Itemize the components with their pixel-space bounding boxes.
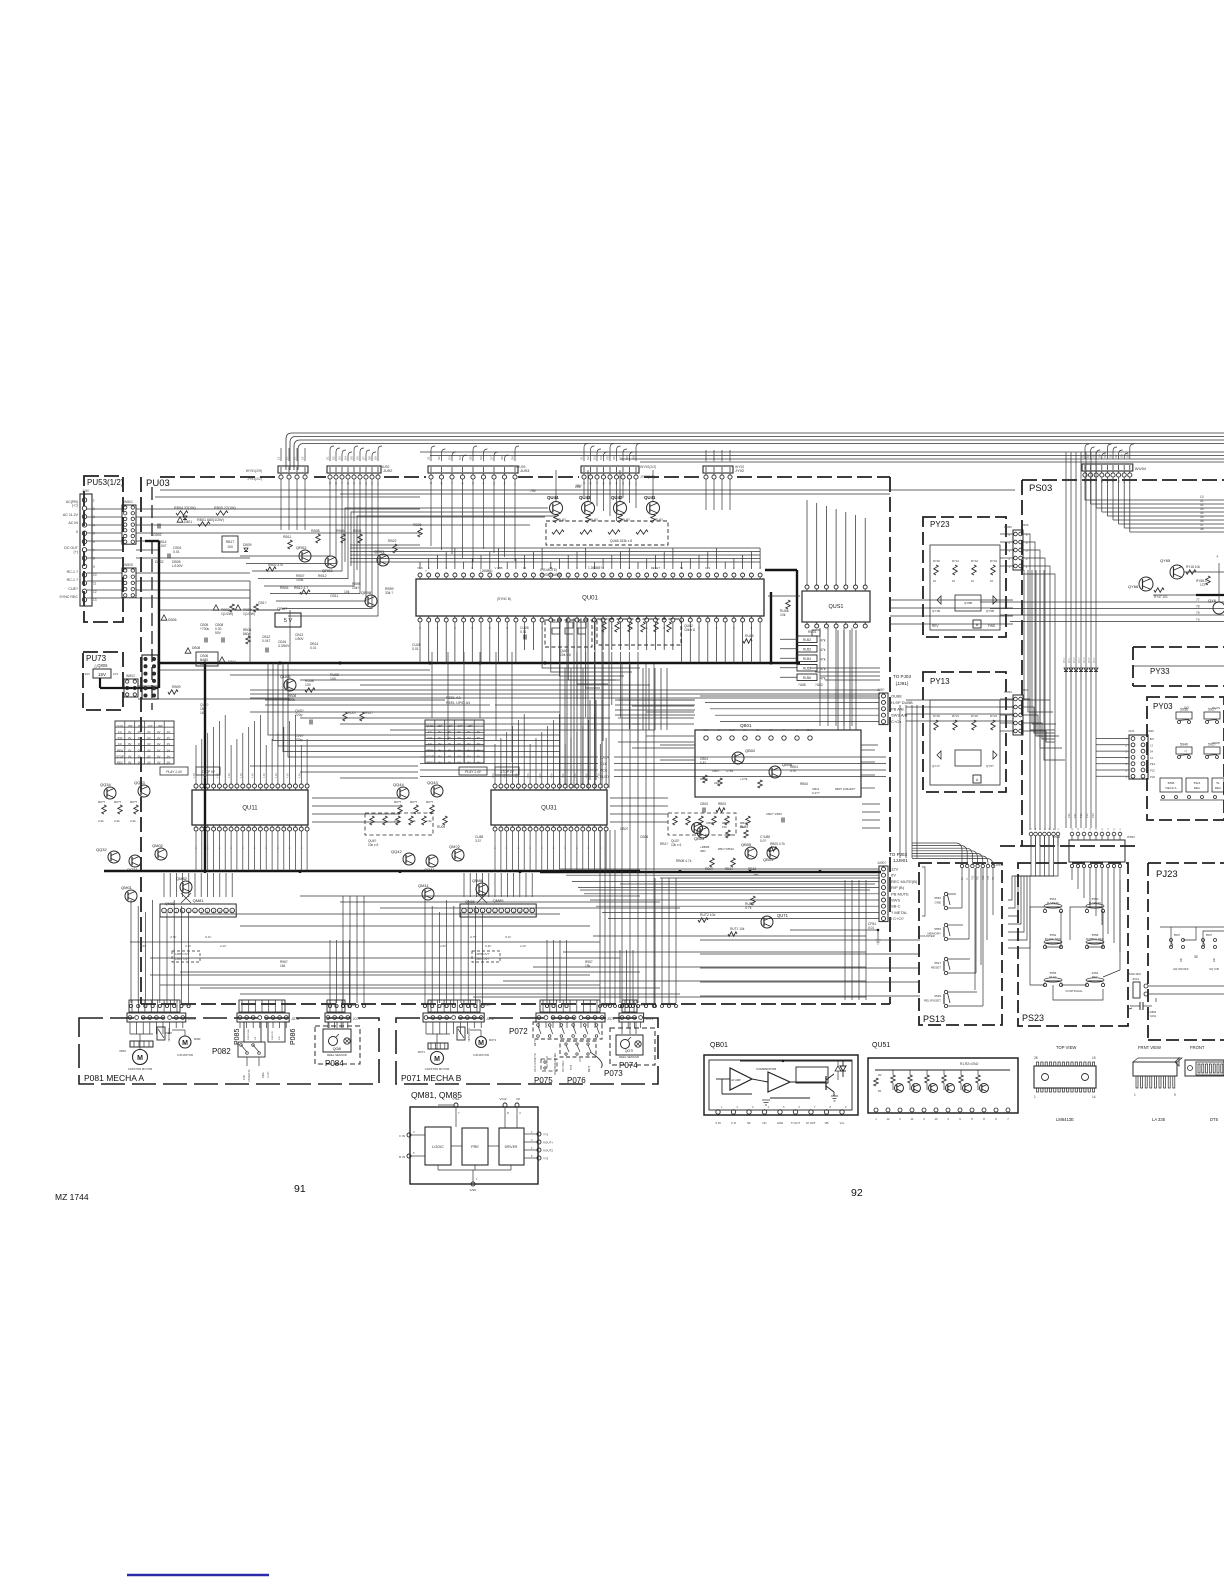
svg-text:PS13: PS13: [923, 1014, 945, 1024]
svg-text:0V: 0V: [477, 742, 481, 746]
svg-text:0V: 0V: [157, 754, 161, 758]
svg-text:W?87: W?87: [639, 1003, 647, 1007]
svg-text:PJ23: PJ23: [1156, 869, 1178, 880]
svg-text:0V: 0V: [457, 736, 461, 740]
svg-text:11: 11: [93, 582, 97, 586]
svg-text:QY5B: QY5B: [986, 609, 994, 613]
svg-text:P23: P23: [987, 875, 990, 880]
svg-text:REL/ROSET: REL/ROSET: [924, 999, 941, 1003]
svg-text:47k: 47k: [820, 658, 826, 662]
svg-text:RB06: RB06: [800, 782, 808, 786]
svg-text:0V: 0V: [128, 742, 132, 746]
svg-text:QY8B: QY8B: [964, 601, 972, 605]
svg-text:W?85: W?85: [482, 1003, 490, 1007]
svg-text:0.01: 0.01: [173, 550, 180, 554]
svg-text:QQ32: QQ32: [96, 847, 107, 852]
svg-text:0V: 0V: [243, 846, 245, 849]
svg-text:0V: 0V: [147, 761, 151, 765]
svg-text:WU93: WU93: [516, 465, 526, 469]
svg-text:DT5: DT5: [1210, 1117, 1219, 1122]
svg-text:0V: 0V: [147, 736, 151, 740]
svg-text:0V: 0V: [467, 742, 471, 746]
svg-text:MOT1: MOT1: [418, 1050, 426, 1054]
svg-text:4.8V: 4.8V: [205, 773, 208, 778]
svg-text:F IN: F IN: [399, 1134, 405, 1138]
svg-text:S9: S9: [632, 456, 636, 460]
svg-text:JO73: JO73: [646, 1017, 654, 1021]
svg-text:⇧: ⇧: [1179, 958, 1183, 964]
svg-text:0V: 0V: [255, 846, 257, 849]
svg-text:S3: S3: [593, 456, 597, 460]
svg-text:0V: 0V: [457, 742, 461, 746]
svg-text:P20: P20: [1150, 775, 1155, 779]
svg-text:16V: 16V: [200, 711, 207, 715]
svg-text:RESET: RESET: [931, 966, 941, 970]
svg-text:PY13: PY13: [930, 677, 950, 686]
svg-text:RY40: RY40: [933, 559, 940, 563]
svg-text:58: 58: [1200, 527, 1204, 531]
svg-text:ONE: ONE: [934, 901, 941, 905]
svg-text:RY23: RY23: [990, 714, 997, 718]
svg-text:550?: 550?: [1174, 933, 1181, 937]
svg-text:16: 16: [277, 456, 281, 460]
svg-text:10: 10: [934, 1117, 938, 1121]
svg-text:QU44: QU44: [547, 495, 559, 500]
svg-text:4.8V: 4.8V: [216, 773, 219, 778]
svg-text:S3: S3: [338, 456, 342, 460]
svg-text:S1: S1: [326, 456, 330, 460]
svg-text:M: M: [182, 1040, 188, 1047]
svg-text:REC: REC: [1215, 786, 1222, 790]
svg-text:R9??: R9??: [394, 800, 402, 804]
svg-text:15V: 15V: [98, 672, 106, 677]
svg-text:22k: 22k: [740, 825, 745, 829]
svg-text:17P: 17P: [148, 724, 153, 728]
svg-text:RB1?: RB1?: [660, 842, 668, 846]
svg-text:0V: 0V: [128, 748, 132, 752]
svg-text:11: 11: [911, 1117, 914, 1121]
svg-text:(?=SP DUBB): (?=SP DUBB): [540, 573, 561, 577]
svg-text:9: 9: [1174, 1093, 1176, 1097]
svg-text:S3: S3: [1092, 454, 1096, 458]
svg-text:V?E1: V?E1: [452, 1097, 460, 1101]
svg-text:HR ON/OFF: HR ON/OFF: [1173, 967, 1189, 971]
svg-text:4.7k: 4.7k: [790, 769, 796, 773]
svg-text:PAUS: PAUS: [1212, 706, 1220, 710]
svg-text:2.6V: 2.6V: [139, 944, 147, 948]
svg-text:1O78: 1O78: [580, 1056, 582, 1062]
svg-text:0.01: 0.01: [520, 630, 527, 634]
svg-text:+700u: +700u: [200, 627, 209, 631]
svg-text:REV: REV: [932, 624, 939, 628]
svg-text:S9: S9: [374, 456, 378, 460]
svg-text:MOT2: MOT2: [489, 1038, 497, 1042]
svg-text:?U88: ?U88: [798, 683, 806, 687]
svg-text:R9??: R9??: [114, 800, 122, 804]
svg-text:10k: 10k: [722, 825, 727, 829]
svg-text:2.2k: 2.2k: [114, 819, 120, 823]
svg-text:S8: S8: [368, 456, 372, 460]
svg-text:M: M: [478, 1040, 484, 1047]
svg-text:S1: S1: [427, 456, 431, 460]
svg-text:208A: 208A: [262, 1072, 265, 1078]
svg-text:8V: 8V: [743, 728, 746, 732]
svg-text:MET?: MET?: [535, 1039, 537, 1046]
svg-text:ACK: ACK: [600, 769, 608, 773]
svg-text:REC: REC: [1092, 975, 1098, 979]
svg-text:0V: 0V: [438, 730, 442, 734]
svg-text:5537: 5537: [934, 961, 941, 965]
svg-text:0.047: 0.047: [158, 544, 167, 548]
svg-text:RY42: RY42: [971, 559, 978, 563]
svg-text:W393: W393: [1004, 690, 1012, 694]
svg-text:LOGIC: LOGIC: [432, 1145, 444, 1149]
svg-text:8V: 8V: [717, 728, 720, 732]
svg-text:0V: 0V: [577, 846, 579, 849]
svg-text:3.7V: 3.7V: [470, 935, 477, 939]
svg-text:QU42: QU42: [611, 495, 623, 500]
svg-text:RB05 22(1W): RB05 22(1W): [214, 506, 236, 510]
svg-text:RU09: RU09: [437, 825, 445, 829]
svg-text:RB12 4.7: RB12 4.7: [294, 586, 308, 590]
svg-text:10k x 6: 10k x 6: [560, 653, 571, 657]
svg-text:QU11: QU11: [116, 724, 124, 728]
svg-text:PLAY 1.4V: PLAY 1.4V: [166, 770, 183, 774]
svg-text:S3: S3: [448, 456, 452, 460]
svg-text:P22: P22: [1079, 813, 1083, 818]
svg-text:0V: 0V: [208, 846, 210, 849]
svg-text:0.1V: 0.1V: [205, 935, 212, 939]
svg-text:AC 11.2V: AC 11.2V: [63, 513, 79, 517]
svg-text:0V: 0V: [147, 748, 151, 752]
svg-text:QM82: QM82: [165, 902, 175, 906]
svg-text:860p: 860p: [243, 632, 251, 636]
svg-text:15: 15: [1092, 1056, 1096, 1060]
svg-text:R9??: R9??: [130, 800, 138, 804]
svg-text:? METAL: ? METAL: [891, 910, 908, 915]
svg-text:W936: W936: [1146, 729, 1154, 733]
svg-text:S5: S5: [469, 456, 473, 460]
svg-text:PEW: PEW: [117, 748, 124, 752]
svg-text:P076: P076: [567, 1076, 586, 1085]
svg-text:78: 78: [1196, 605, 1200, 609]
svg-text:GO: GO: [1184, 706, 1189, 710]
svg-text:47k: 47k: [820, 677, 826, 681]
svg-text:0.01: 0.01: [412, 647, 419, 651]
svg-text:SOLENOID: SOLENOID: [167, 1028, 171, 1042]
svg-text:CONTINUAL: CONTINUAL: [1065, 989, 1083, 993]
svg-text:QU31: QU31: [541, 806, 557, 812]
svg-text:(SYNC B): (SYNC B): [497, 597, 511, 601]
svg-text:S8: S8: [500, 456, 504, 460]
svg-text:RB06: RB06: [336, 529, 345, 533]
svg-text:550?: 550?: [1206, 933, 1213, 937]
svg-text:AF AMP: AF AMP: [731, 1078, 741, 1082]
svg-text:172: 172: [1200, 583, 1206, 587]
svg-text:R9??: R9??: [98, 800, 106, 804]
svg-text:0V: 0V: [467, 754, 471, 758]
svg-text:REC MUTE(B): REC MUTE(B): [891, 879, 918, 884]
svg-text:100: 100: [305, 683, 311, 687]
svg-text:Y?2: Y?2: [543, 1157, 549, 1161]
svg-text:0V: 0V: [589, 846, 591, 849]
svg-text:R1: R1: [878, 1089, 882, 1093]
svg-text:QU66 183k x 8: QU66 183k x 8: [610, 539, 632, 543]
svg-text:SYNC REC: SYNC REC: [59, 595, 78, 599]
svg-text:PU53(1/2): PU53(1/2): [87, 478, 124, 487]
svg-text:0V: 0V: [157, 730, 161, 734]
svg-text:2.2k: 2.2k: [426, 819, 432, 823]
svg-text:+: +: [1216, 554, 1219, 559]
svg-text:Vcc: Vcc: [840, 1121, 845, 1125]
svg-text:47k: 47k: [820, 648, 826, 652]
svg-text:QB05: QB05: [741, 842, 752, 847]
svg-text:2.2k: 2.2k: [98, 819, 104, 823]
svg-text:3.3/50V: 3.3/50V: [278, 644, 290, 648]
svg-text:0: 0: [76, 530, 78, 534]
svg-text:R/P (B): R/P (B): [891, 885, 905, 890]
svg-text:0V: 0V: [157, 748, 161, 752]
svg-text:15V: 15V: [575, 485, 582, 489]
svg-text:CB06: CB06: [640, 835, 648, 839]
svg-text:QM81: QM81: [193, 898, 205, 903]
svg-text:QM11: QM11: [418, 883, 429, 888]
svg-text:0V: 0V: [467, 730, 471, 734]
svg-text:GND: GND: [470, 1188, 478, 1192]
svg-text:S7: S7: [619, 456, 623, 460]
svg-text:D512: D512: [1074, 657, 1076, 663]
svg-text:4.8V: 4.8V: [298, 773, 301, 778]
svg-text:FRNT VIEW: FRNT VIEW: [1138, 1045, 1161, 1050]
svg-text:STOP: STOP: [1212, 741, 1220, 745]
svg-text:REC: REC: [427, 761, 433, 765]
svg-text:13: 13: [1150, 743, 1154, 747]
svg-text:+C?9: +C?9: [740, 777, 748, 781]
svg-text:2.2V: 2.2V: [219, 944, 227, 948]
svg-text:D513: D513: [1079, 657, 1081, 663]
svg-text:?U83: ?U83: [815, 683, 823, 687]
svg-text:☒: ☒: [1194, 954, 1198, 959]
svg-text:QU51: QU51: [872, 1042, 890, 1049]
svg-text:W593: W593: [1127, 835, 1135, 839]
svg-text:RY18 10k: RY18 10k: [1186, 565, 1200, 569]
svg-text:△Q806: △Q806: [94, 663, 108, 668]
svg-text:0V: 0V: [138, 754, 142, 758]
svg-text:10k?: 10k?: [352, 586, 359, 590]
svg-text:S6: S6: [1109, 454, 1113, 458]
svg-text:4.8V: 4.8V: [539, 773, 542, 778]
svg-text:S6: S6: [612, 456, 616, 460]
svg-text:NF: NF: [747, 1121, 751, 1125]
svg-text:PLAY 1.4V: PLAY 1.4V: [465, 770, 482, 774]
svg-text:CB0?: CB0?: [712, 769, 720, 773]
svg-text:51: 51: [1216, 781, 1220, 785]
svg-text:P22: P22: [1150, 769, 1155, 773]
svg-text:QQ33: QQ33: [134, 780, 145, 785]
svg-text:5A: 5A: [961, 877, 964, 880]
svg-text:RC-1 ?: RC-1 ?: [67, 570, 78, 574]
svg-text:4: 4: [93, 523, 95, 527]
svg-text:33k ?: 33k ?: [385, 591, 393, 595]
svg-text:0V: 0V: [138, 748, 142, 752]
svg-text:0V: 0V: [438, 736, 442, 740]
svg-text:J396: J396: [1022, 523, 1029, 527]
svg-text:F.F: F.F: [428, 730, 432, 734]
svg-text:JU5?: JU5?: [82, 489, 90, 493]
svg-text:RB08 4.7k: RB08 4.7k: [676, 859, 692, 863]
svg-text:COUNTER: COUNTER: [920, 934, 936, 938]
svg-text:QO7I: QO7I: [625, 1049, 634, 1053]
svg-text:P23: P23: [1085, 813, 1089, 818]
svg-text:0V: 0V: [147, 754, 151, 758]
svg-text:0V: 0V: [167, 761, 171, 765]
svg-text:S2: S2: [437, 456, 441, 460]
svg-text:RB22: RB22: [388, 539, 397, 543]
svg-text:17P: 17P: [458, 724, 463, 728]
svg-text:0.01: 0.01: [868, 926, 874, 930]
svg-text:4.8V: 4.8V: [263, 773, 266, 778]
svg-text:1001: 1001: [1150, 1014, 1157, 1018]
svg-text:DB06: DB06: [168, 618, 177, 622]
svg-text:PS23: PS23: [1022, 1013, 1044, 1023]
svg-text:220p: 220p: [295, 713, 303, 717]
svg-text:100: 100: [227, 545, 233, 549]
svg-text:0V: 0V: [477, 736, 481, 740]
svg-text:STOP: STOP: [426, 754, 434, 758]
svg-text:SO77 REV: SO77 REV: [563, 1060, 565, 1072]
svg-text:RB04 33(1W): RB04 33(1W): [174, 506, 196, 510]
svg-text:RB1? RB16: RB1? RB16: [718, 847, 734, 851]
svg-text:QY5?: QY5?: [986, 764, 994, 768]
svg-text:0V: 0V: [138, 742, 142, 746]
svg-text:0.0?: 0.0?: [760, 839, 766, 843]
svg-text:2.2V: 2.2V: [519, 944, 527, 948]
svg-text:JU90?: JU90?: [877, 861, 886, 865]
svg-text:GND: GND: [777, 1121, 783, 1125]
svg-text:WY92(2/2): WY92(2/2): [640, 465, 656, 469]
svg-text:0V: 0V: [477, 754, 481, 758]
svg-text:I 266BB): I 266BB): [480, 569, 492, 573]
svg-text:REEL SENSOR: REEL SENSOR: [619, 1055, 639, 1059]
svg-text:0V: 0V: [167, 748, 171, 752]
svg-text:10: 10: [952, 579, 956, 583]
svg-text:S4: S4: [458, 456, 462, 460]
svg-text:91: 91: [294, 1183, 306, 1195]
svg-text:184: 184: [280, 964, 286, 968]
svg-text:W?80: W?80: [182, 1003, 190, 1007]
svg-text:0V: 0V: [157, 761, 161, 765]
svg-text:12.1V: 12.1V: [807, 728, 814, 732]
svg-text:S5: S5: [606, 456, 610, 460]
svg-text:RB16: RB16: [748, 867, 756, 871]
svg-text:RUT1 10k: RUT1 10k: [730, 927, 745, 931]
svg-text:77: 77: [1196, 598, 1200, 602]
svg-text:0.47?: 0.47?: [812, 791, 820, 795]
svg-text:S4: S4: [1097, 454, 1101, 458]
svg-text:8V: 8V: [756, 728, 759, 732]
svg-text:0V: 0V: [128, 754, 132, 758]
svg-text:20V: 20V: [85, 672, 90, 676]
svg-text:12: 12: [1150, 756, 1154, 760]
svg-text:RB09: RB09: [172, 685, 181, 689]
svg-text:P075: P075: [534, 1076, 553, 1085]
svg-text:RB0?: RB0?: [705, 867, 713, 871]
svg-text:P086: P086: [290, 1029, 297, 1045]
svg-text:RB05: RB05: [718, 802, 726, 806]
svg-text:COMPARATOR: COMPARATOR: [756, 1067, 776, 1071]
svg-text:QM01: QM01: [121, 885, 133, 890]
svg-text:CAPSTON MOTOR: CAPSTON MOTOR: [128, 1067, 153, 1071]
svg-text:0V: 0V: [167, 736, 171, 740]
svg-text:R9??: R9??: [426, 800, 434, 804]
svg-text:10: 10: [933, 579, 937, 583]
svg-text:4.8V: 4.8V: [515, 773, 518, 778]
svg-text:4.8V: 4.8V: [275, 773, 278, 778]
svg-text:RV0?: RV0?: [365, 711, 373, 715]
svg-text:RY20: RY20: [933, 714, 940, 718]
svg-text:F/R: F/R: [279, 1036, 281, 1040]
svg-text:WU92: WU92: [380, 465, 390, 469]
svg-text:CB0?: CB0?: [620, 827, 628, 831]
svg-text:12: 12: [886, 1117, 890, 1121]
svg-text:S5: S5: [350, 456, 354, 460]
svg-text:S9: S9: [1125, 454, 1129, 458]
svg-text:QU01: QU01: [582, 596, 598, 602]
svg-text:QM82: QM82: [176, 876, 188, 881]
svg-text:5556: 5556: [934, 927, 941, 931]
svg-text:0V: 0V: [167, 730, 171, 734]
svg-text:15P: 15P: [438, 724, 443, 728]
svg-text:P073: P073: [604, 1069, 623, 1078]
svg-text:5898: 5898: [1168, 781, 1175, 785]
svg-text:D510: D510: [1064, 657, 1066, 663]
svg-text:0V: 0V: [457, 761, 461, 765]
svg-text:LA 335: LA 335: [1152, 1117, 1166, 1122]
svg-text:NC: NC: [762, 1121, 766, 1125]
svg-text:10: 10: [93, 573, 97, 577]
svg-text:PY33: PY33: [1150, 667, 1170, 676]
svg-text:S4: S4: [599, 456, 603, 460]
svg-text:LM88 OV?: LM88 OV?: [175, 952, 190, 956]
svg-text:12V: 12V: [891, 867, 898, 872]
svg-text:0V: 0V: [507, 846, 509, 849]
svg-text:0V: 0V: [157, 736, 161, 740]
svg-text:16: 16: [293, 456, 297, 460]
svg-text:0V: 0V: [554, 846, 556, 849]
svg-text:STOP: STOP: [116, 754, 124, 758]
svg-text:REEL SENSOR: REEL SENSOR: [327, 1053, 347, 1057]
svg-text:RY22: RY22: [971, 714, 978, 718]
svg-text:5/6: 5/6: [1150, 737, 1154, 741]
svg-text:4.8V: 4.8V: [193, 773, 196, 778]
svg-text:RU56: RU56: [803, 676, 811, 680]
svg-text:S8: S8: [1120, 454, 1124, 458]
svg-text:S1: S1: [580, 456, 584, 460]
svg-text:0V: 0V: [147, 742, 151, 746]
svg-text:9: 9: [93, 565, 95, 569]
svg-text:6: 6: [93, 540, 95, 544]
svg-text:VOUT+: VOUT+: [543, 1141, 553, 1145]
svg-text:S2: S2: [1086, 454, 1090, 458]
svg-text:CLK: CLK: [600, 762, 608, 766]
svg-text:0.01: 0.01: [310, 646, 317, 650]
svg-text:0V: 0V: [138, 736, 142, 740]
svg-text:F.F: F.F: [118, 730, 122, 734]
svg-text:5940: 5940: [1180, 743, 1188, 747]
svg-text:QU41: QU41: [644, 495, 656, 500]
svg-text:QQ41: QQ41: [424, 867, 435, 872]
svg-text:JC01: JC01: [1132, 977, 1139, 981]
